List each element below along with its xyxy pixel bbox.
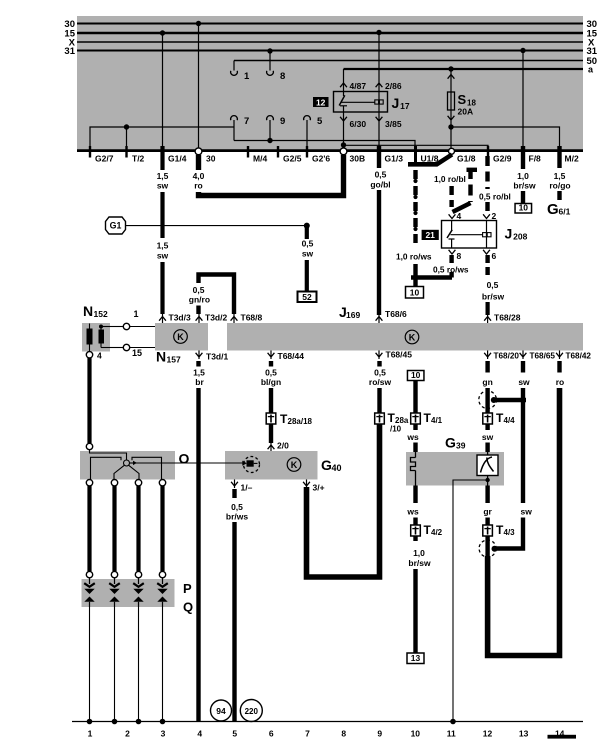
wire bus15 to G1/4	[160, 30, 165, 150]
svg-text:G2/9: G2/9	[493, 154, 512, 164]
terminal G2/7	[90, 146, 114, 164]
plug connectors P and spark plugs Q	[82, 578, 194, 615]
svg-text:P: P	[183, 581, 192, 596]
svg-text:5: 5	[317, 116, 323, 127]
svg-text:go/bl: go/bl	[370, 180, 390, 190]
svg-text:12: 12	[316, 97, 326, 107]
J17 pin 6/30	[340, 112, 366, 148]
hall sender G40	[225, 451, 342, 480]
wire 1,5 ro/go (M/2 to G6/1)	[549, 146, 570, 200]
wire T28a/10 to G40 3/+ loop	[307, 424, 380, 577]
J17 pin 4/87	[340, 69, 366, 91]
wire 0,5 sw to ground 52	[302, 226, 314, 292]
wire sw (T68/65 shield)	[495, 361, 533, 549]
thread connector 7	[231, 116, 250, 141]
svg-text:ws: ws	[406, 507, 419, 517]
relay J208	[442, 221, 497, 249]
N152 terminal 1 link	[110, 309, 155, 330]
svg-text:30: 30	[206, 154, 216, 164]
J169 pin T68/45	[376, 350, 413, 360]
svg-text:S: S	[458, 92, 467, 107]
svg-text:15: 15	[132, 348, 142, 358]
wire S18 to G1/8	[450, 127, 452, 149]
svg-text:220: 220	[245, 707, 259, 716]
ground box 52	[298, 292, 317, 303]
wire ws to G39	[406, 424, 419, 452]
thread connector 8	[267, 48, 286, 82]
wire to G40 2/0	[268, 424, 289, 451]
svg-text:0,5: 0,5	[375, 170, 387, 180]
svg-text:T3d/1: T3d/1	[206, 352, 228, 362]
reference bubble G1	[106, 217, 126, 234]
svg-text:13: 13	[519, 729, 529, 739]
svg-text:N: N	[83, 303, 93, 319]
rail track numbers	[88, 729, 576, 739]
bus band (top gray panel)	[77, 16, 583, 151]
terminal G2'6	[307, 146, 330, 164]
J169 pin T68/44	[268, 351, 305, 362]
wire S18 to M/2	[451, 127, 560, 157]
wire sw into G39	[482, 424, 494, 452]
svg-text:31: 31	[64, 46, 75, 57]
svg-text:ro/sw: ro/sw	[369, 377, 392, 387]
svg-text:G2/5: G2/5	[283, 154, 302, 164]
wire G39 sense (thin) to rail 11	[452, 486, 454, 722]
wire 1,5 br (T3d/1 to bottom rail 4)	[193, 361, 205, 722]
bus line 31	[64, 46, 597, 57]
wire 0,5 gn/ro (T3d/2 to T68/8)	[189, 275, 234, 315]
connector T4/2	[411, 523, 443, 537]
svg-text:br/ws: br/ws	[226, 512, 248, 522]
svg-text:1: 1	[244, 71, 250, 82]
wire bus30 to term30	[196, 21, 201, 148]
svg-text:0,5 ro/bl: 0,5 ro/bl	[479, 192, 511, 202]
svg-text:21: 21	[425, 230, 435, 240]
terminal M/2	[560, 146, 579, 164]
thread connector 9	[267, 116, 286, 144]
svg-text:3: 3	[161, 729, 166, 739]
svg-text:G1: G1	[110, 221, 122, 231]
svg-text:3/+: 3/+	[313, 483, 325, 493]
N157 pin T3d/3	[169, 313, 191, 323]
J208 pin 8	[449, 250, 462, 261]
svg-text:6/30: 6/30	[350, 119, 367, 129]
svg-text:T68/8: T68/8	[241, 313, 263, 323]
svg-text:1,0 ro/ws: 1,0 ro/ws	[396, 252, 432, 262]
svg-text:T3d/3: T3d/3	[169, 313, 191, 323]
svg-text:G1/8: G1/8	[457, 154, 476, 164]
terminal 30B (open)	[340, 148, 365, 164]
wires distributor to plugs	[86, 480, 165, 578]
svg-text:J: J	[505, 226, 513, 242]
ignition coil N152	[82, 303, 110, 352]
svg-text:0,5: 0,5	[265, 368, 277, 378]
wire plug10 to G39 heater	[413, 381, 417, 414]
svg-text:K: K	[291, 460, 298, 470]
wire gn (T68/20 to T4/4)	[479, 361, 526, 413]
terminal G1/4	[163, 146, 187, 164]
terminal G1/8 (open)	[449, 148, 476, 163]
svg-text:169: 169	[346, 310, 360, 320]
J169 pin T68/8	[231, 313, 263, 324]
svg-text:4/4: 4/4	[504, 416, 516, 425]
svg-text:1,5: 1,5	[157, 171, 169, 181]
terminal G2/9	[488, 146, 512, 164]
J208 pin 6	[483, 250, 496, 261]
svg-text:2/86: 2/86	[385, 81, 402, 91]
plug box 10 (below J208)	[406, 287, 424, 299]
connector T28a/10	[375, 411, 409, 434]
wire 0,5 bl/gn (T68/44 to G40 2/0)	[261, 361, 281, 413]
svg-text:/10: /10	[390, 425, 402, 434]
svg-text:G1/3: G1/3	[385, 154, 404, 164]
svg-text:10: 10	[410, 287, 420, 297]
bus line 30	[64, 19, 597, 30]
svg-text:T68/6: T68/6	[385, 309, 407, 319]
svg-text:T68/65: T68/65	[530, 352, 556, 361]
svg-text:ro: ro	[556, 377, 565, 387]
svg-text:4/2: 4/2	[431, 528, 443, 537]
wire 4,0 ro (term 30 to 30B)	[193, 155, 344, 196]
svg-text:ro/go: ro/go	[549, 181, 570, 191]
svg-text:2: 2	[492, 211, 497, 221]
svg-text:ws: ws	[406, 432, 419, 442]
connector T4/4	[483, 411, 515, 425]
svg-text:T68/20: T68/20	[494, 352, 520, 361]
bus line 50	[234, 56, 597, 67]
svg-text:52: 52	[302, 292, 312, 302]
splice below T4/3	[479, 536, 497, 557]
node splice 0,5 sw	[304, 223, 310, 229]
wire 1,5 sw (G1/4 to N157 T3d/3)	[157, 146, 169, 323]
svg-text:Q: Q	[183, 600, 193, 615]
svg-text:152: 152	[94, 309, 108, 319]
plug box 10 (to T4/1)	[407, 370, 424, 381]
svg-text:0,5: 0,5	[487, 280, 499, 290]
svg-text:10: 10	[519, 202, 529, 212]
svg-text:G: G	[321, 457, 332, 473]
svg-text:G2'6: G2'6	[312, 154, 330, 164]
wire U1/8 + G1/8 merge	[408, 146, 452, 166]
svg-text:5: 5	[232, 729, 237, 739]
wire threads to U1/8	[234, 141, 415, 158]
svg-text:4,0: 4,0	[193, 171, 205, 181]
svg-text:gr: gr	[483, 507, 492, 517]
svg-text:28a/18: 28a/18	[288, 417, 313, 426]
wires plugs to earth rail	[87, 607, 166, 724]
thread connector 5	[304, 116, 323, 157]
wire T/2 stub	[124, 124, 129, 157]
wire 30B to G2/9	[341, 142, 488, 157]
svg-text:157: 157	[167, 355, 181, 365]
svg-text:br/sw: br/sw	[408, 558, 431, 568]
wire 0,5 go/bl (G1/3 to J169 T68/6)	[370, 146, 390, 323]
J169 pin T68/28	[494, 313, 521, 323]
control unit N157	[155, 323, 208, 365]
terminal 30 (open)	[195, 148, 216, 164]
J17 pin 3/85	[376, 112, 402, 150]
wire 0,5 ro/ws (J208 pin8)	[433, 255, 469, 278]
svg-text:13: 13	[411, 653, 421, 663]
N152 terminal 15 link	[110, 344, 155, 358]
svg-text:N: N	[156, 349, 166, 365]
svg-text:2/0: 2/0	[277, 441, 289, 451]
distributor internals	[90, 450, 162, 481]
J169 pin T68/65	[520, 351, 556, 361]
fuse S18	[448, 66, 477, 129]
wire bus31 to F/8	[520, 48, 525, 157]
svg-text:94: 94	[216, 706, 226, 716]
svg-text:sw: sw	[302, 249, 314, 259]
svg-text:1/–: 1/–	[241, 483, 253, 493]
svg-text:30B: 30B	[350, 154, 366, 164]
bus line 15	[64, 29, 597, 40]
svg-text:O: O	[179, 451, 190, 467]
svg-text:gn/ro: gn/ro	[189, 295, 210, 305]
connector T4/1	[411, 411, 443, 425]
svg-text:208: 208	[513, 232, 527, 242]
J169 pin T68/42	[556, 351, 591, 361]
svg-text:10: 10	[411, 370, 421, 380]
J208 pin 2	[483, 211, 496, 221]
wire ro (T68/42 to T4/3 loop)	[488, 361, 565, 656]
svg-text:J: J	[392, 95, 400, 111]
svg-text:1,5: 1,5	[554, 171, 566, 181]
svg-text:K: K	[177, 332, 184, 342]
wire gr (G39 to T4/3)	[483, 486, 492, 526]
thread connector 1	[231, 61, 250, 83]
svg-text:G1/4: G1/4	[168, 154, 187, 164]
J208 label	[505, 226, 528, 242]
svg-text:bl/gn: bl/gn	[261, 377, 281, 387]
svg-text:br/sw: br/sw	[482, 292, 505, 302]
wire 0,5 ro/bl (G2/9 to J208 pin2, dashed)	[479, 156, 511, 211]
svg-text:3/85: 3/85	[385, 119, 402, 129]
svg-text:sw: sw	[157, 181, 169, 191]
svg-text:M/2: M/2	[565, 154, 579, 164]
terminal G2/5	[278, 146, 302, 164]
svg-text:br/sw: br/sw	[513, 181, 536, 191]
wire coil HT to distributor	[86, 358, 92, 450]
svg-text:12: 12	[483, 729, 493, 739]
svg-text:2: 2	[125, 729, 130, 739]
ground box 13	[407, 653, 424, 664]
wire 1,0 br/sw to ground 13	[408, 536, 431, 653]
svg-text:17: 17	[400, 101, 410, 111]
svg-text:gn: gn	[482, 377, 492, 387]
wire 0,5 br/ws (G40 1/- to rail 5)	[226, 489, 248, 722]
svg-text:T/2: T/2	[132, 154, 145, 164]
svg-text:1: 1	[88, 729, 93, 739]
svg-text:7: 7	[244, 116, 249, 127]
svg-text:4: 4	[197, 729, 202, 739]
J208 pin 4	[449, 211, 462, 221]
N152 terminal 4	[86, 351, 102, 361]
svg-text:T3d/2: T3d/2	[205, 313, 227, 323]
reference bubble 220	[240, 700, 262, 722]
svg-text:T68/45: T68/45	[386, 350, 413, 360]
svg-text:9: 9	[377, 729, 382, 739]
svg-text:8: 8	[457, 251, 462, 261]
svg-text:8: 8	[280, 71, 285, 82]
svg-text:M/4: M/4	[253, 154, 267, 164]
svg-text:4/1: 4/1	[431, 416, 443, 425]
svg-text:6: 6	[492, 251, 497, 261]
bottom earth rail	[72, 719, 583, 725]
svg-text:0,5: 0,5	[231, 502, 243, 512]
connector T4/3	[483, 523, 515, 537]
lambda probe G39	[406, 435, 504, 486]
svg-text:G2/7: G2/7	[95, 154, 114, 164]
terminal F/8	[523, 146, 541, 164]
svg-text:T68/42: T68/42	[566, 352, 592, 361]
svg-text:T68/28: T68/28	[494, 313, 521, 323]
svg-text:1,5: 1,5	[157, 241, 169, 251]
wire G2/7,T/2 to thread 7	[90, 127, 234, 157]
G40 pin 3/+	[303, 480, 324, 493]
svg-text:ro: ro	[194, 181, 203, 191]
bus line a	[344, 65, 595, 75]
N157 pin T3d/1	[196, 351, 229, 362]
svg-text:sw: sw	[482, 432, 494, 442]
svg-text:sw: sw	[521, 507, 533, 517]
svg-text:20A: 20A	[458, 107, 474, 117]
svg-text:sw: sw	[518, 377, 530, 387]
svg-text:11: 11	[447, 729, 456, 739]
svg-text:4/3: 4/3	[504, 528, 516, 537]
svg-text:G: G	[547, 201, 559, 218]
wire 0,5 ro/sw (T68/45 to T28a/10)	[369, 361, 392, 413]
engine control unit J169	[227, 304, 583, 351]
distributor O	[80, 451, 190, 480]
svg-text:4: 4	[97, 351, 102, 361]
terminal M/4	[248, 146, 267, 164]
connector T28a/18	[266, 412, 312, 426]
bus line X	[69, 38, 595, 49]
svg-text:F/8: F/8	[529, 154, 542, 164]
J169 pin T68/20	[484, 351, 519, 361]
J17 pin 2/86	[376, 30, 402, 91]
svg-text:1,0: 1,0	[517, 171, 529, 181]
svg-text:6/1: 6/1	[559, 207, 571, 217]
wire 0,5 br/sw (J208 pin6 to T68/28)	[482, 255, 505, 323]
wire pickup O to G40	[136, 462, 245, 464]
svg-text:39: 39	[456, 441, 466, 451]
terminal G1/3	[379, 146, 403, 164]
svg-text:sw: sw	[157, 251, 169, 261]
J208 tag 21	[422, 230, 439, 240]
wire G1 line to splice	[126, 225, 307, 227]
svg-text:0,5: 0,5	[374, 368, 386, 378]
reference bubble 94	[211, 700, 232, 721]
svg-text:1: 1	[133, 309, 138, 319]
wire ws (G39 to T4/2)	[406, 486, 419, 526]
relay J17	[334, 92, 388, 113]
terminal T/2	[127, 146, 145, 164]
wire 1,0 ro/ws (dash-dot to plug 10)	[396, 170, 452, 286]
svg-text:4: 4	[457, 211, 462, 221]
wire 1,0 br/sw (F/8 to plug 10)	[513, 146, 536, 213]
svg-text:br: br	[195, 377, 204, 387]
svg-text:1,0 ro/bl: 1,0 ro/bl	[434, 174, 466, 184]
label G6/1	[547, 201, 571, 218]
svg-text:4/87: 4/87	[350, 81, 367, 91]
svg-text:40: 40	[332, 463, 342, 473]
J169 pin T68/6	[385, 309, 407, 319]
svg-text:0,5: 0,5	[302, 239, 314, 249]
svg-text:8: 8	[341, 729, 346, 739]
wire to J208 pin4 (dashed)	[452, 168, 477, 212]
svg-text:6: 6	[269, 729, 274, 739]
svg-text:10: 10	[411, 729, 421, 739]
svg-text:G: G	[445, 435, 456, 451]
terminal U1/8	[416, 146, 439, 164]
G40 pin 1/-	[231, 480, 252, 493]
svg-text:1,5: 1,5	[193, 368, 205, 378]
svg-text:K: K	[409, 333, 416, 343]
wire 1,0 ro/bl label	[434, 174, 466, 184]
N157 pin T3d/2	[196, 313, 228, 324]
svg-text:T68/44: T68/44	[278, 351, 305, 361]
svg-text:9: 9	[280, 116, 285, 127]
svg-text:1,0: 1,0	[413, 548, 425, 558]
svg-text:7: 7	[305, 729, 310, 739]
J17 label	[392, 95, 410, 111]
J17 tag 12	[313, 97, 329, 107]
